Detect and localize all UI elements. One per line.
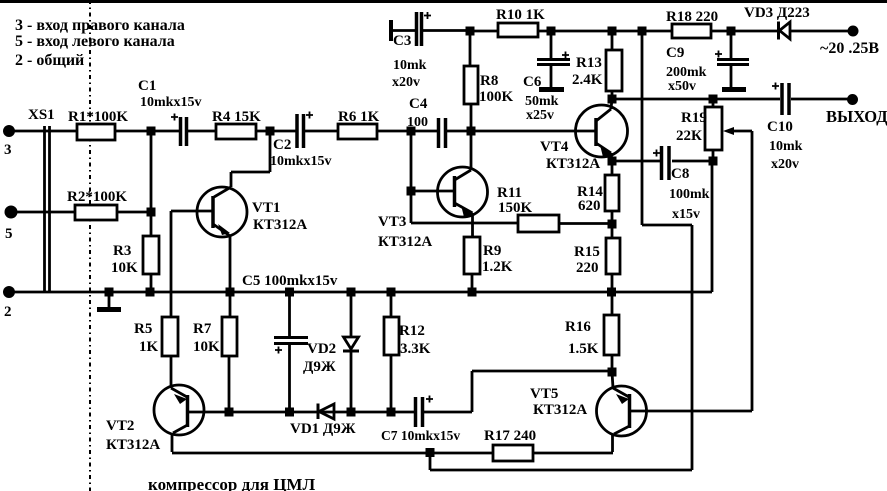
ground rail bbox=[13, 291, 712, 294]
svg-text:R8: R8 bbox=[480, 73, 498, 89]
svg-text:КТ312А: КТ312А bbox=[533, 402, 587, 418]
svg-text:КТ312А: КТ312А bbox=[106, 437, 160, 453]
diode VD1 bbox=[318, 404, 334, 420]
svg-text:XS1: XS1 bbox=[28, 107, 55, 123]
svg-text:VT3: VT3 bbox=[378, 214, 406, 230]
terminal pin 5 bbox=[5, 206, 18, 219]
capacitor C3 bbox=[391, 12, 470, 46]
wire R19 wiper feedback bbox=[751, 131, 754, 411]
resistor R15 bbox=[574, 238, 620, 276]
svg-text:компрессор для ЦМЛ: компрессор для ЦМЛ bbox=[148, 475, 315, 491]
svg-text:620: 620 bbox=[578, 198, 601, 214]
ground symbol bbox=[97, 292, 121, 310]
wire R9 bottom bbox=[471, 274, 474, 292]
svg-text:х20v: х20v bbox=[771, 157, 799, 172]
svg-text:R18 220: R18 220 bbox=[666, 9, 718, 25]
capacitor C2 bbox=[297, 114, 304, 148]
wire C10 to output bbox=[791, 98, 848, 101]
wire feedback horizontal bbox=[642, 224, 692, 227]
svg-text:C5 100mkх15v: C5 100mkх15v bbox=[242, 273, 338, 289]
wire supply drop bbox=[429, 453, 432, 470]
wire pin3 to R1 bbox=[13, 130, 77, 133]
svg-text:C4: C4 bbox=[409, 96, 428, 112]
svg-text:2 - общий: 2 - общий bbox=[15, 52, 84, 69]
wire pin5 to R2 bbox=[15, 211, 75, 214]
wire R14 chain bbox=[611, 161, 614, 175]
connector XS1 bbox=[45, 126, 50, 291]
svg-text:2: 2 bbox=[4, 304, 12, 320]
wire R11 right bbox=[559, 222, 612, 225]
transistor VT3 bbox=[415, 131, 488, 237]
wire R4 to C2 bbox=[256, 130, 296, 133]
wire R3 bottom to ground rail bbox=[150, 274, 153, 292]
svg-text:VT5: VT5 bbox=[530, 386, 558, 402]
svg-text:R13: R13 bbox=[576, 55, 602, 71]
svg-text:C7 10mkх15v: C7 10mkх15v bbox=[381, 428, 460, 443]
resistor R8 bbox=[464, 66, 514, 105]
capacitor C10 bbox=[782, 83, 789, 115]
terminal pin 3 bbox=[3, 125, 15, 137]
svg-text:х25v: х25v bbox=[526, 108, 554, 123]
svg-text:КТ312А: КТ312А bbox=[378, 234, 432, 250]
svg-text:5: 5 bbox=[5, 226, 13, 242]
resistor R9 bbox=[464, 237, 513, 275]
svg-text:150K: 150K bbox=[498, 200, 533, 216]
svg-text:х15v: х15v bbox=[672, 207, 700, 222]
svg-text:10mk: 10mk bbox=[769, 139, 803, 154]
capacitor C4 bbox=[439, 118, 446, 148]
svg-text:100mk: 100mk bbox=[669, 187, 710, 202]
wire R18 to VD3 bbox=[711, 30, 777, 33]
wire C4 to VT4 base bbox=[447, 130, 595, 133]
resistor R1 bbox=[68, 109, 128, 140]
wire top rail C3-R10 bbox=[470, 30, 498, 33]
svg-text:х20v: х20v bbox=[392, 75, 420, 90]
svg-text:R7: R7 bbox=[193, 321, 212, 337]
wire bottom supply line bbox=[430, 469, 692, 472]
wire to VT5 base node bbox=[472, 370, 612, 373]
wire VT4 emitter node to C8 bbox=[612, 160, 660, 163]
svg-text:C2: C2 bbox=[273, 137, 291, 153]
svg-text:R9: R9 bbox=[483, 243, 501, 259]
resistor R12 bbox=[384, 292, 431, 412]
pcb boundary dash line bbox=[89, 0, 91, 491]
resistor R16 bbox=[565, 315, 619, 357]
wire C2 to R6 bbox=[305, 130, 338, 133]
svg-text:VT1: VT1 bbox=[252, 200, 280, 216]
svg-text:1.2K: 1.2K bbox=[482, 259, 513, 275]
svg-text:КТ312А: КТ312А bbox=[546, 156, 600, 172]
svg-text:3.3K: 3.3K bbox=[400, 341, 431, 357]
svg-text:200mk: 200mk bbox=[666, 65, 707, 80]
wire R10 to R18 bbox=[538, 30, 672, 33]
capacitor C9 bbox=[717, 31, 749, 90]
terminal +20..25V bbox=[848, 26, 859, 37]
svg-text:ВЫХОД: ВЫХОД bbox=[826, 107, 887, 126]
wire C8 to R19 bottom bbox=[672, 160, 712, 163]
capacitor C7 bbox=[416, 397, 423, 427]
wire R8 bottom bbox=[470, 104, 473, 131]
svg-text:100K: 100K bbox=[479, 89, 514, 105]
terminal output bbox=[847, 94, 858, 105]
diode VD3 bbox=[779, 22, 791, 40]
wire R7 bottom bbox=[228, 356, 231, 412]
transistor VT5 bbox=[597, 372, 647, 452]
svg-text:C10: C10 bbox=[767, 119, 793, 135]
terminal pin 2 bbox=[3, 286, 15, 298]
wire R19 bottom to ground rail bbox=[711, 161, 714, 292]
wire C4out down to VT3 base bbox=[410, 131, 413, 223]
svg-text:х50v: х50v bbox=[668, 79, 696, 94]
wire C1 to R4 bbox=[188, 130, 216, 133]
svg-text:R5: R5 bbox=[134, 321, 152, 337]
svg-text:1.5K: 1.5K bbox=[568, 341, 599, 357]
wire VT2 collector row bbox=[172, 452, 493, 455]
junction supply drop bbox=[426, 448, 435, 457]
svg-text:C8: C8 bbox=[671, 166, 689, 182]
wire R16 chain bbox=[611, 292, 614, 315]
svg-text:R3: R3 bbox=[113, 243, 131, 259]
resistor R14 bbox=[577, 175, 619, 214]
svg-text:VD3 Д223: VD3 Д223 bbox=[744, 5, 810, 21]
svg-text:10mkх15v: 10mkх15v bbox=[270, 154, 331, 169]
capacitor C6 bbox=[537, 31, 570, 90]
resistor R4 bbox=[212, 109, 261, 139]
wire R2 to node bbox=[117, 211, 151, 214]
transistor VT2 bbox=[154, 356, 229, 452]
resistor R10 bbox=[496, 7, 545, 37]
wire C7 right bbox=[424, 411, 472, 414]
svg-text:~20 .25В: ~20 .25В bbox=[820, 40, 879, 57]
svg-text:3 - вход правого канала: 3 - вход правого канала bbox=[15, 17, 185, 34]
svg-text:50mk: 50mk bbox=[525, 94, 559, 109]
svg-text:220: 220 bbox=[576, 260, 599, 276]
svg-text:VT2: VT2 bbox=[106, 418, 134, 434]
capacitor C8 bbox=[662, 146, 670, 180]
svg-text:1K: 1K bbox=[139, 339, 159, 355]
wire R8 top bbox=[469, 31, 472, 66]
svg-text:VD2: VD2 bbox=[307, 341, 336, 357]
resistor R18 bbox=[666, 9, 718, 38]
svg-text:2.4K: 2.4K bbox=[572, 72, 603, 88]
svg-text:R11: R11 bbox=[497, 185, 522, 201]
wire R13 bottom bbox=[611, 91, 614, 99]
svg-text:R2*100K: R2*100K bbox=[67, 189, 127, 205]
svg-text:R10 1K: R10 1K bbox=[496, 7, 545, 23]
wire R1 to C1 bbox=[115, 130, 179, 133]
diode VD2 bbox=[343, 292, 359, 412]
resistor R19 potentiometer bbox=[676, 99, 752, 161]
svg-text:R1*100K: R1*100K bbox=[68, 109, 128, 125]
wire VT1 emitter / R7 top bbox=[229, 292, 232, 317]
wire VT4 collector rail bbox=[612, 98, 780, 101]
svg-text:R16: R16 bbox=[565, 319, 591, 335]
svg-text:5 - вход левого канала: 5 - вход левого канала bbox=[15, 33, 175, 50]
wire VT3 base node to R11 bbox=[411, 222, 518, 225]
svg-text:22К: 22К bbox=[676, 128, 702, 144]
wire node A vertical R1out-R3 bbox=[150, 131, 153, 236]
wire supply feedback vertical bbox=[641, 31, 644, 225]
svg-text:3: 3 bbox=[4, 142, 12, 158]
svg-text:C3: C3 bbox=[393, 33, 411, 49]
resistor R6 bbox=[338, 109, 380, 139]
capacitor C1 bbox=[181, 117, 187, 146]
wire VD3 to +supply terminal bbox=[790, 30, 849, 33]
svg-text:R15: R15 bbox=[574, 244, 600, 260]
wire C7 loop up bbox=[471, 371, 474, 412]
svg-text:C9: C9 bbox=[666, 45, 684, 61]
svg-text:C6: C6 bbox=[523, 74, 542, 90]
resistor R2 bbox=[67, 189, 127, 220]
wire VT2 base line bbox=[229, 411, 414, 414]
legend text bbox=[15, 17, 185, 69]
svg-text:VD1 Д9Ж: VD1 Д9Ж bbox=[290, 421, 356, 437]
top border line bbox=[0, 0, 887, 3]
wire VT1 base to R5 top bbox=[170, 211, 173, 317]
resistor R11 bbox=[497, 185, 559, 232]
svg-text:10K: 10K bbox=[111, 260, 138, 276]
svg-text:VT4: VT4 bbox=[540, 139, 569, 155]
wire R17 right bbox=[533, 452, 613, 455]
svg-text:R4 15K: R4 15K bbox=[212, 109, 261, 125]
resistor R7 bbox=[193, 317, 237, 356]
transistor VT4 bbox=[576, 99, 628, 161]
svg-text:C1: C1 bbox=[138, 78, 156, 94]
wire VT5 base row bbox=[631, 410, 752, 413]
resistor R17 bbox=[484, 428, 536, 461]
resistor R5 bbox=[134, 317, 178, 356]
capacitor C5 bbox=[274, 292, 308, 412]
resistor R13 bbox=[572, 31, 622, 91]
svg-text:R12: R12 bbox=[399, 323, 425, 339]
svg-text:R19: R19 bbox=[681, 110, 707, 126]
svg-text:R17 240: R17 240 bbox=[484, 428, 536, 444]
resistor R3 bbox=[111, 236, 159, 276]
svg-text:10mkх15v: 10mkх15v bbox=[140, 95, 201, 110]
svg-text:Д9Ж: Д9Ж bbox=[303, 359, 336, 375]
svg-text:10K: 10K bbox=[193, 339, 220, 355]
svg-text:КТ312А: КТ312А bbox=[253, 217, 307, 233]
wire feedback down bbox=[691, 225, 694, 470]
svg-text:10mk: 10mk bbox=[393, 58, 427, 73]
wire R6 to C4 bbox=[377, 130, 437, 133]
svg-text:R6 1K: R6 1K bbox=[338, 109, 380, 125]
transistor VT1 bbox=[171, 131, 270, 292]
